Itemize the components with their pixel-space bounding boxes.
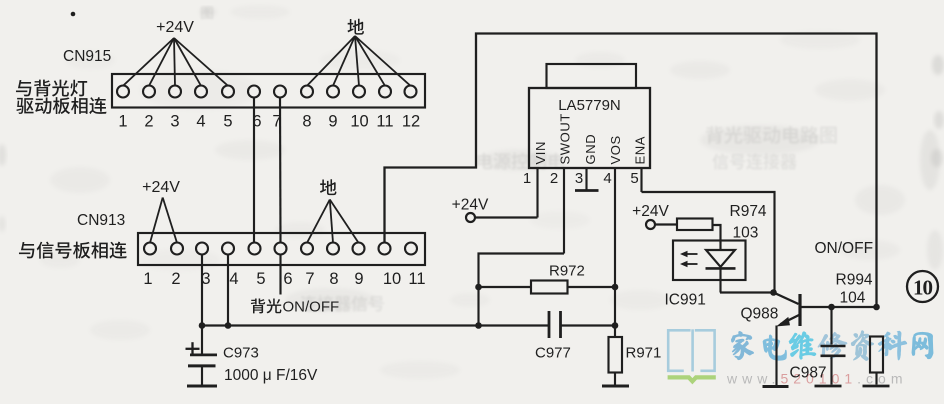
svg-text:9: 9 <box>354 270 363 288</box>
svg-text:VIN: VIN <box>533 141 548 164</box>
wire CN913 pin3 down to bus <box>201 255 203 326</box>
ground GND pin3 <box>575 189 599 192</box>
svg-text:+24V: +24V <box>156 19 194 36</box>
resistor R971 <box>609 337 623 373</box>
watermark text 家电维修资料网 <box>732 331 933 361</box>
connector CN915 body <box>112 74 425 108</box>
wire CN913 pin10 up, across top, down right side (ON/OFF net) <box>385 34 877 308</box>
wire ENA pin5 to Q988 base node <box>642 192 775 293</box>
svg-text:+24V: +24V <box>632 203 669 220</box>
svg-text:VOS: VOS <box>608 135 623 164</box>
node junction R972 right (VOS line) <box>612 284 619 291</box>
svg-text:1: 1 <box>118 113 127 131</box>
svg-text:4: 4 <box>603 170 611 187</box>
wire ground fan to CN913 pins 7-9 <box>307 200 359 243</box>
IC LA5779N body <box>529 88 650 168</box>
svg-text:5: 5 <box>256 270 265 288</box>
svg-text:1000 μ F/16V: 1000 μ F/16V <box>224 367 318 384</box>
IC pin numbers 1-5 <box>523 170 639 187</box>
svg-text:104: 104 <box>840 290 866 307</box>
wire Q988 emitter down <box>775 326 777 386</box>
terminal +24V (opto supply) <box>632 203 669 229</box>
svg-text:1: 1 <box>143 270 152 288</box>
node junction Q988 base <box>770 289 777 296</box>
svg-text:R994: R994 <box>836 272 873 289</box>
wire R994 to ground <box>875 373 877 385</box>
watermark book base (green) <box>668 377 716 381</box>
svg-text:4: 4 <box>196 113 205 131</box>
label 与背光灯 <box>16 80 31 96</box>
wire CN915 pin6 to CN913 pin5 <box>253 98 255 243</box>
scan ink dot <box>71 12 76 17</box>
svg-text:12: 12 <box>402 113 420 131</box>
node junction CN913 pin3/bus <box>199 322 206 329</box>
svg-text:11: 11 <box>408 270 425 288</box>
svg-text:3: 3 <box>170 113 179 131</box>
svg-text:7: 7 <box>305 270 314 288</box>
svg-text:11: 11 <box>376 113 393 131</box>
svg-text:SWOUT: SWOUT <box>558 113 573 164</box>
wire R974 to opto anode <box>713 225 721 243</box>
transistor Q988 <box>774 293 801 327</box>
node junction bus/VOS <box>612 322 619 329</box>
node junction C987 top <box>828 304 835 311</box>
wire main bus y=325.5 (C977 in series) <box>202 324 615 326</box>
svg-text:+24V: +24V <box>452 197 489 214</box>
wire CN913 pin4 down to bus <box>227 255 229 326</box>
wire CN913 pin6 stub (backlight on/off) <box>279 255 281 295</box>
svg-text:LA5779N: LA5779N <box>558 97 621 114</box>
label 与信号板相连 <box>19 242 34 258</box>
watermark book logo <box>668 329 714 371</box>
node junction CN913 pin4/bus <box>225 322 232 329</box>
wire ground fan to CN915 pins 8-12 <box>307 36 411 86</box>
terminal +24V (VIN supply) <box>452 197 489 223</box>
wire +24V to VIN pin1 <box>475 216 538 218</box>
wire +24V fan to CN913 pins 1-2 <box>150 198 177 243</box>
wire +24V fan to CN915 pins 1-5 <box>123 38 228 86</box>
IC pin stubs <box>538 168 642 337</box>
node junction R972 left <box>475 284 482 291</box>
label 驱动板相连 <box>16 98 33 114</box>
svg-text:2: 2 <box>171 270 180 288</box>
ground net label 地 (CN915) <box>347 19 363 35</box>
ground below R994 <box>863 385 890 388</box>
wire R971 to ground <box>614 373 616 385</box>
svg-text:+24V: +24V <box>142 179 180 196</box>
svg-text:ON/OFF: ON/OFF <box>815 240 874 257</box>
svg-text:10: 10 <box>913 276 933 300</box>
circled figure number 10 <box>907 271 938 302</box>
capacitor C987 <box>821 307 846 385</box>
capacitor C973 (electrolytic) <box>186 326 218 385</box>
svg-text:R971: R971 <box>626 345 662 362</box>
svg-text:103: 103 <box>733 225 759 242</box>
svg-text:2: 2 <box>144 113 153 131</box>
wire +24V to R974 <box>655 223 678 225</box>
svg-text:C987: C987 <box>790 365 827 382</box>
svg-text:1: 1 <box>523 170 531 187</box>
capacitor C977 <box>549 311 561 338</box>
svg-text:GND: GND <box>583 134 598 165</box>
svg-text:CN915: CN915 <box>63 48 111 65</box>
ground below C987 <box>815 385 842 388</box>
svg-text:IC991: IC991 <box>665 292 706 309</box>
svg-text:3: 3 <box>575 170 583 187</box>
resistor R972 <box>531 281 568 294</box>
svg-text:C973: C973 <box>223 345 259 362</box>
CN915 pin numbers 1-12 <box>118 113 420 131</box>
IC LA5779N tab <box>547 64 637 88</box>
label 背光ON/OFF <box>251 298 339 315</box>
svg-text:R974: R974 <box>730 203 767 220</box>
wire R972 row <box>479 286 616 288</box>
svg-text:6: 6 <box>283 270 292 288</box>
wire SWOUT pin2 to R972 left node <box>479 254 565 288</box>
CN913 pin numbers 1-11 <box>143 270 425 288</box>
node junction R994 line <box>873 304 880 311</box>
wire Q988 collector row <box>800 306 877 308</box>
svg-text:10: 10 <box>350 113 368 131</box>
svg-text:ON/OFF: ON/OFF <box>283 299 340 316</box>
IC pin name labels VIN SWOUT GND VOS ENA <box>533 113 648 164</box>
svg-text:CN913: CN913 <box>77 212 125 229</box>
ground below R971 <box>602 385 629 388</box>
svg-text:8: 8 <box>302 113 311 131</box>
svg-text:5: 5 <box>630 170 638 187</box>
node junction bus/left <box>475 322 482 329</box>
svg-text:8: 8 <box>329 270 338 288</box>
svg-text:9: 9 <box>328 113 337 131</box>
ground below Q988 emitter <box>763 385 789 388</box>
ground below C973 <box>187 385 217 388</box>
svg-text:ENA: ENA <box>633 136 648 165</box>
svg-text:5: 5 <box>223 113 232 131</box>
svg-text:10: 10 <box>383 270 401 288</box>
ground net label 地 (CN913) <box>320 179 336 195</box>
optocoupler IC991 <box>673 241 746 293</box>
svg-text:Q988: Q988 <box>741 306 779 323</box>
svg-text:4: 4 <box>229 270 238 288</box>
svg-text:2: 2 <box>550 170 558 187</box>
wire R972 left node down to bus <box>477 287 479 326</box>
wire opto cathode to Q988 base node <box>720 291 774 293</box>
resistor R994 <box>870 337 883 373</box>
wire CN915 pin7 to CN913 pin6 <box>279 98 282 243</box>
svg-text:C977: C977 <box>535 345 571 362</box>
svg-text:R972: R972 <box>549 263 585 280</box>
connector CN913 body <box>138 233 425 265</box>
resistor R974 <box>677 219 713 231</box>
